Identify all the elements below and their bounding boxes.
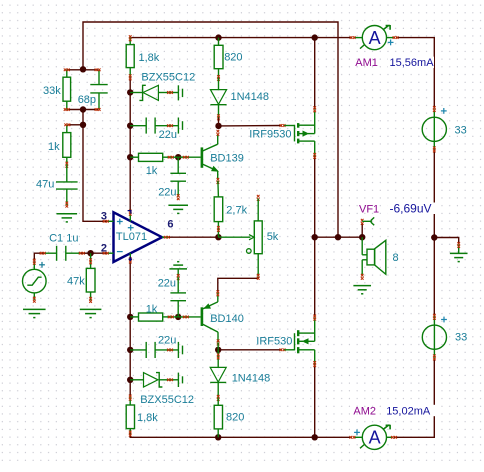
zener D3 triangle (144, 373, 158, 387)
BD139 collector diagonal (203, 144, 218, 151)
lead to D4 (173, 379, 178, 381)
zener row terminal (167, 91, 170, 94)
speaker stub top (362, 254, 367, 256)
1k body horizontal (139, 153, 163, 161)
value 15,02mA (385, 405, 436, 416)
wire pot bottom to BD140 top pin (218, 277, 258, 292)
capacitor 47u bottom lead (66, 189, 68, 205)
2,7k bottom terminal (217, 226, 220, 229)
resistor R 47k body (86, 268, 95, 292)
wire gate drive bottom (to IRF530) (218, 349, 282, 351)
BD139 collector terminal (217, 130, 220, 133)
svg-text:1k: 1k (146, 303, 158, 315)
capacitor 22u vertical (top) lead (177, 157, 179, 173)
svg-text:8: 8 (393, 252, 399, 264)
V1 terminal bottom (433, 146, 436, 149)
IRF530 source stub (299, 349, 315, 351)
1,8k bottom top terminal (129, 395, 132, 398)
junction (218.2,349.8) (215, 347, 221, 353)
BD140 top diagonal with inward arrow (203, 302, 218, 309)
V+ pin terminal (129, 210, 132, 213)
value 15,56mA (388, 57, 434, 68)
wire C1 to input node (80, 252, 91, 254)
V1 terminal top (433, 106, 436, 109)
op-amp output pin 6 stub (162, 236, 168, 238)
1N4148 triangle (210, 90, 226, 105)
op-amp V+ pin lead (129, 213, 131, 222)
BD139 base terminal (183, 156, 186, 159)
speaker lower lead (361, 260, 363, 276)
resistor 2,7k top lead (217, 181, 220, 197)
svg-text:-6,69uV: -6,69uV (390, 202, 432, 216)
resistor 1,8k body (126, 45, 134, 68)
V2 terminal bottom (433, 354, 436, 357)
AM1 arrow (383, 25, 390, 30)
BD140 base terminal (183, 316, 186, 319)
diode 1N4148 (bottom): top lead (217, 350, 219, 368)
BD140 bottom terminal (217, 339, 220, 342)
ammeter AM2 circle (362, 425, 386, 449)
V2 internal line and leads (433, 317, 435, 358)
1k to 47u lead (66, 165, 68, 182)
junction (83,109.5) (80, 106, 86, 112)
IRF9530 gate lead (284, 125, 294, 127)
IRF9530 drain stub (299, 140, 315, 142)
junction (178.2,157.2) (175, 154, 181, 160)
svg-text:15,02mA: 15,02mA (386, 405, 431, 417)
22u end plate short (182, 121, 184, 130)
svg-text:22u: 22u (159, 129, 177, 141)
svg-text:AM1: AM1 (355, 57, 378, 69)
zener D2 plate tall (177, 85, 179, 100)
MOSFET U3 IRF530: gate terminal (280, 348, 283, 351)
1k right lead (163, 156, 179, 158)
wire output column top (rail to IRF9530 source) (314, 38, 316, 110)
diode 1N4148 (top) lead (218, 78, 220, 90)
wire input node to op-amp pin 2 (91, 252, 107, 254)
C1 terminal right (79, 252, 82, 255)
lead to gate node (218, 118, 220, 126)
wire output node to IRF530 drain (314, 237, 316, 317)
22u end plate tall bottom (177, 342, 179, 358)
5k open terminal circle (247, 249, 252, 254)
22u terminal bottom row (167, 349, 170, 352)
5k body (254, 221, 262, 254)
junction (314.7,437.3) (312, 434, 318, 440)
zener diodes BZX55C12 bottom row: left lead (130, 379, 143, 381)
zener row middle lead (158, 92, 173, 94)
VG1 terminal top (33, 259, 36, 262)
C1 terminal left (40, 252, 43, 255)
wire output row to speaker node (315, 236, 363, 238)
resistor 33k bottom lead (66, 101, 68, 109)
BD140 top terminal (216, 290, 219, 293)
wire 1k node to BD140 base (178, 316, 200, 318)
AM1 right lead (387, 37, 396, 39)
svg-text:33: 33 (455, 331, 467, 343)
loudspeaker SP1: top lead (361, 237, 363, 255)
wire VF1 probe stub (361, 223, 363, 237)
svg-text:33: 33 (455, 125, 467, 137)
ground right terminal (457, 242, 460, 245)
VF1 probe hook (362, 217, 374, 225)
22u vertical plates (170, 172, 186, 174)
1k body horizontal bottom (139, 313, 163, 321)
speaker terminal (361, 274, 364, 277)
1,8k bottom terminal (129, 74, 132, 77)
svg-text:820: 820 (226, 412, 244, 424)
resistor 1k (BD139 base): left lead (130, 156, 138, 158)
IRF9530 drain terminal (313, 153, 316, 156)
junction (130.2,125.7) (127, 123, 133, 129)
IRF530 right vertical source side (314, 350, 316, 364)
junction (130.2,349.9) (127, 347, 133, 353)
IRF9530 gate plate (294, 125, 296, 142)
svg-text:TL071: TL071 (116, 231, 147, 243)
svg-text:47u: 47u (36, 179, 54, 191)
AM1 left lead (354, 37, 363, 39)
AM1 plus sign (388, 40, 394, 46)
wire IRF9530 drain to output node (314, 156, 316, 237)
47u terminal (65, 202, 68, 205)
IRF9530 right vertical source side (314, 109, 316, 133)
voltage probe VF1 terminal (361, 219, 364, 222)
47k terminal bottom (89, 297, 92, 300)
junction (130.2,316.9) (127, 314, 133, 320)
22u vertical terminal (177, 274, 180, 277)
svg-text:22u: 22u (158, 277, 176, 289)
wire ground branch right rail (434, 238, 458, 245)
op-amp supply plus mark (128, 225, 134, 231)
junction (83,69.3) (80, 66, 86, 72)
V2 terminal top (433, 314, 436, 317)
22u vertical bottom lead (177, 181, 179, 197)
IRF530 drain terminal (313, 315, 316, 318)
IRF530 gate plate (294, 333, 296, 350)
wire 1k node to BD139 base (178, 156, 200, 158)
wire node B down to op-amp pin 3 (83, 110, 107, 222)
resistor 1k body (63, 133, 71, 158)
voltage source V2 33V circle (422, 325, 446, 349)
junction (434.3,237.5) (431, 234, 437, 240)
op-amp V+ pin tick (128, 211, 131, 214)
capacitor C1 right lead (66, 252, 80, 254)
ground below 47u (57, 214, 78, 222)
IRF9530 channel bars (297, 123, 299, 143)
AM2 left lead (354, 436, 363, 438)
svg-text:AM2: AM2 (353, 405, 376, 417)
820 bottom body (214, 405, 222, 429)
pin 6 terminal (164, 236, 167, 239)
IRF9530 body stub with arrow (299, 133, 303, 135)
zener D1 cathode bar with hooks (139, 85, 145, 100)
zener D3 cathode bar with hooks (156, 373, 162, 387)
capacitor 22u vertical (bottom): inverted ground above (169, 262, 187, 269)
22u plates (145, 118, 147, 134)
AM2 terminal left (349, 436, 352, 439)
svg-text:BD140: BD140 (210, 313, 244, 325)
wire VG1 to C1 (34, 253, 44, 262)
svg-text:22u: 22u (158, 334, 176, 346)
svg-text:BZX55C12: BZX55C12 (141, 71, 195, 83)
svg-text:C1 1u: C1 1u (49, 232, 78, 244)
junction (130.2,379.8) (127, 377, 133, 383)
VG1 waveform symbol (27, 277, 41, 285)
1N4148 cathode bar (210, 104, 226, 106)
1,8k bottom lead to rail (129, 429, 131, 434)
zener D4 plate short (182, 376, 184, 383)
svg-text:33k: 33k (43, 85, 61, 97)
AM2 tail (360, 445, 364, 449)
transistor Q2 BD140 base bar (201, 307, 204, 326)
capacitor 22u horizontal (bottom): left lead (130, 349, 146, 351)
ground below speaker (353, 286, 371, 294)
1N4148 bottom lead (217, 382, 219, 398)
820 body (214, 45, 223, 68)
voltage source V1 33V circle (422, 117, 446, 141)
BD139 collector lead (217, 134, 219, 144)
resistor 820 (top): top lead (218, 38, 220, 46)
transistor Q1 BD139 base bar (201, 147, 204, 167)
IRF530 channel bars (297, 330, 299, 353)
svg-text:1,8k: 1,8k (137, 412, 158, 424)
wire node A top stub (33k/68p top) (66, 69, 98, 71)
resistor 1k (BD140 base): left lead (130, 316, 138, 318)
MOSFET U2 IRF9530: gate terminal (280, 124, 283, 127)
22u terminal (167, 124, 170, 127)
1N4148 terminal (217, 114, 220, 117)
svg-text:1,8k: 1,8k (139, 52, 160, 64)
speaker stub bottom (362, 259, 367, 261)
junction (218.2,437.3) (215, 434, 221, 440)
BD140 bottom diagonal (203, 324, 218, 332)
svg-text:820: 820 (224, 51, 242, 63)
wire AM2 to V33 bottom (394, 358, 434, 437)
junction (218.5,125.9) (215, 123, 221, 129)
ground below 22u vertical (168, 205, 188, 213)
junction (218.5,37.6) (215, 34, 221, 40)
IRF530 drain stub (299, 332, 315, 334)
33k terminals (64, 68, 67, 71)
svg-text:2,7k: 2,7k (226, 205, 247, 217)
resistor 1k (feedback) top lead (66, 125, 68, 133)
1N4148 bottom triangle (210, 367, 226, 382)
speaker box (367, 249, 375, 265)
svg-text:BZX55C12: BZX55C12 (140, 394, 194, 406)
1,8k bottom body (126, 405, 134, 429)
IRF530 gate lead (284, 349, 294, 351)
5k top lead (257, 199, 259, 221)
resistor 1k bottom lead (66, 157, 68, 165)
svg-text:1N4148: 1N4148 (232, 372, 271, 384)
wire V+ rail top (130, 37, 352, 39)
22u right lead (155, 125, 178, 127)
svg-text:1N4148: 1N4148 (231, 91, 270, 103)
junction (178.2,316.9) (175, 314, 181, 320)
op-amp pin 3 stub (107, 220, 114, 222)
zener bottom terminal (167, 378, 170, 381)
svg-text:47k: 47k (67, 275, 85, 287)
op-amp V- pin tick arrow (129, 257, 132, 261)
BD139 emitter lead (217, 171, 219, 180)
ground below VG1 (23, 309, 46, 317)
V1 internal line and leads (433, 109, 435, 149)
IRF530 body stub with arrow (308, 340, 315, 342)
capacitor 68p bottom lead (98, 93, 100, 110)
IRF9530 right vertical drain side (314, 141, 316, 156)
VG1 plus sign (39, 262, 45, 268)
capacitor 68p top lead (98, 70, 100, 85)
resistor 33k top lead (66, 70, 68, 77)
1N4148 bottom terminal (217, 395, 220, 398)
wire left rail (V-) op-amp down (129, 260, 131, 397)
2,7k body (214, 197, 223, 222)
wire gate drive top (to IRF9530) (219, 125, 282, 127)
resistor 1,8k (top) top lead (129, 38, 131, 45)
resistor 820 (bottom) lead (217, 398, 219, 405)
AM2 plus sign (354, 430, 360, 436)
ground right rail lead (458, 245, 460, 254)
V2 plus sign (441, 317, 447, 323)
VG1 top lead (33, 262, 35, 269)
ground right rail (450, 253, 468, 261)
5k bottom terminal (257, 274, 260, 277)
22u vertical bottom lead from ground (177, 269, 179, 277)
22u vertical terminal (177, 194, 180, 197)
IRF530 right vertical drain side (314, 318, 316, 342)
wire op-amp output to junction (167, 236, 218, 238)
1N4148 bottom terminal top (217, 353, 220, 356)
resistor 1,8k (bottom): top lead (129, 397, 131, 405)
junction (314.7,237.2) (312, 234, 318, 240)
op-amp non-inverting plus mark (117, 219, 123, 225)
capacitor 22u horizontal (top): left lead (130, 125, 146, 127)
voltage generator VG1 circle (23, 269, 47, 293)
1N4148 bottom lead (218, 105, 220, 118)
pin 3 terminal (103, 220, 106, 223)
svg-text:A: A (369, 28, 381, 48)
pin 2 terminal (103, 252, 106, 255)
capacitor C1 1u left lead (45, 252, 57, 254)
1,8k top terminal (129, 35, 132, 38)
5k wiper arrowhead (249, 235, 254, 240)
svg-text:VF1: VF1 (359, 203, 379, 215)
AM1 tail (360, 45, 364, 49)
wire node B bottom stub (33k/68p bottom) (66, 109, 98, 111)
junction (314.7,37.6) (312, 34, 318, 40)
22u vertical lead to junction (177, 301, 179, 317)
5k bottom lead (257, 254, 259, 277)
BD139 emitter terminal (217, 178, 220, 181)
capacitor 68p plates (90, 84, 107, 86)
zener D1 triangle (143, 85, 158, 100)
AM1 terminal left (350, 36, 353, 39)
op-amp pin 2 stub (107, 252, 114, 254)
svg-text:6: 6 (167, 219, 173, 231)
820 bottom lead to rail (217, 429, 219, 437)
1N4148 bottom cathode bar (210, 381, 226, 383)
AM1 terminal right (393, 36, 396, 39)
capacitor C1 plates (56, 246, 58, 261)
wire bottom rail (V-) (130, 429, 352, 438)
lead to plates (177, 277, 179, 293)
VG1 bottom lead (33, 293, 35, 300)
op-amp inverting minus mark (117, 251, 123, 253)
47k terminal top (89, 258, 92, 261)
22u right lead bottom row (155, 349, 178, 351)
1,8k bottom terminal (129, 431, 132, 434)
820 terminal (217, 75, 220, 78)
svg-text:68p: 68p (78, 94, 96, 106)
resistor 1,8k bottom lead (129, 68, 131, 78)
svg-text:5k: 5k (267, 231, 279, 243)
1k terminal bottom (65, 162, 68, 165)
VG1 terminal bottom (33, 297, 36, 300)
svg-text:IRF530: IRF530 (256, 335, 292, 347)
BD140 bottom lead (217, 332, 219, 342)
op-amp V- pin lead (129, 253, 131, 260)
svg-text:BD139: BD139 (210, 153, 244, 165)
IRF9530 source terminal (313, 106, 316, 109)
820 bottom lead (218, 69, 220, 78)
resistor 33k body (63, 77, 71, 101)
junction (83,124.8) (80, 122, 86, 128)
V1 plus sign (441, 108, 447, 114)
junction (362.2,237.2) (359, 234, 365, 240)
speaker horn (375, 240, 386, 274)
op-amp U1 TL071 triangle (114, 212, 163, 262)
BD140 top lead (217, 293, 219, 302)
svg-text:A: A (369, 428, 381, 448)
resistor 47k bottom lead (90, 292, 92, 300)
svg-text:1k: 1k (48, 141, 60, 153)
BD139 emitter diagonal with arrow (203, 164, 218, 171)
potentiometer P1 5k: top terminal (257, 195, 260, 198)
5k wiper arm (218, 236, 250, 238)
svg-text:2: 2 (101, 242, 107, 254)
1k right lead bottom (163, 316, 179, 318)
68p terminals (95, 68, 98, 71)
svg-text:IRF9530: IRF9530 (249, 128, 291, 140)
wire feedback loop: output node up over the top to 33k/68p node (83, 22, 338, 237)
svg-text:1k: 1k (146, 165, 158, 177)
svg-text:22u: 22u (158, 186, 176, 198)
ammeter AM1 circle (362, 25, 386, 49)
junction (90.6,253.2) (87, 250, 93, 256)
ground below 47k (80, 309, 102, 317)
V- pin terminal (129, 257, 132, 260)
wire AM1 to V33 top (396, 38, 434, 109)
junction (218.4,237.2) (215, 234, 221, 240)
zener D4 plate tall (177, 373, 179, 387)
value -6,69uV (388, 203, 437, 215)
zener D2 plate short (182, 89, 184, 97)
lead to D2 (173, 92, 178, 94)
22u plates bottom row (145, 342, 147, 358)
1k terminal top (64, 123, 67, 126)
22u end plate tall (177, 118, 179, 134)
22u end plate short bottom (182, 346, 184, 355)
svg-text:3: 3 (101, 211, 107, 223)
wire left rail (V+) down to op-amp (129, 77, 131, 213)
IRF530 source terminal (313, 361, 316, 364)
22u vertical plates bottom half (170, 292, 186, 294)
AM2 right lead (387, 436, 394, 438)
zener diodes BZX55C12 top row: left lead (130, 92, 142, 94)
junction (338,237.2) (335, 234, 341, 240)
1k terminal bottom (168, 316, 171, 319)
IRF9530 source stub (299, 124, 315, 126)
